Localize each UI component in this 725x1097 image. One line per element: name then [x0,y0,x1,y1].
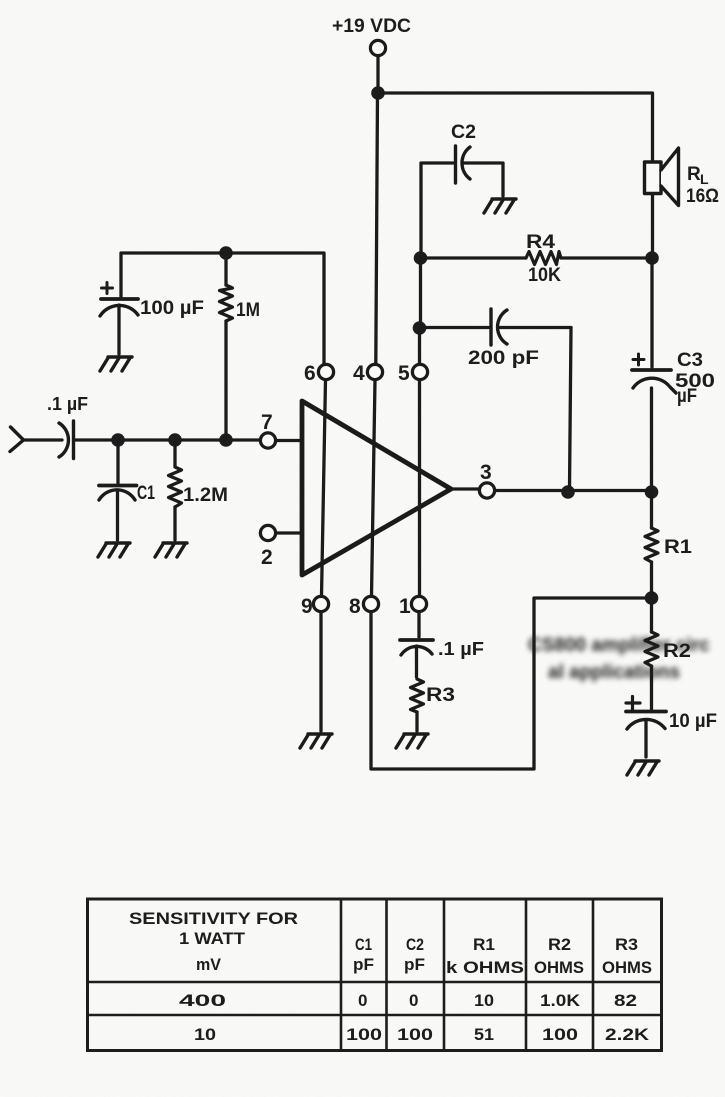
svg-text:C1: C1 [355,935,372,954]
label C3 500 uF [675,350,715,407]
wire pin 7 stub [226,438,302,442]
svg-text:R3: R3 [426,685,455,706]
label .1 uF input [47,394,88,414]
ground 100uF [100,357,132,371]
junction 1M node [219,433,233,447]
label pin 9 [301,595,313,618]
svg-text:+19 VDC: +19 VDC [332,16,411,37]
label R2 [663,641,691,662]
label pin 5 [398,362,410,385]
svg-text:51: 51 [474,1025,494,1044]
svg-text:OHMS: OHMS [602,958,652,977]
svg-text:1.2M: 1.2M [183,485,228,506]
ground C2 [484,199,516,213]
svg-text:k OHMS: k OHMS [446,958,524,977]
wire 200pF to output row [570,328,572,490]
svg-text:4: 4 [353,362,365,385]
pin 4 [367,364,382,379]
svg-text:9: 9 [301,595,313,618]
capacitor C2 [421,146,503,255]
wire bias top rail [121,253,324,364]
svg-text:400: 400 [179,991,226,1010]
junction feedback tap [561,485,575,499]
svg-text:C2: C2 [451,122,476,143]
junction C2 R4 node [414,251,428,265]
resistor 1.2M [169,440,182,540]
svg-text:R4: R4 [526,232,556,253]
label pin 8 [349,595,361,618]
pin 7 [260,433,275,448]
svg-text:10K: 10K [528,265,561,286]
wire pin 3 stub [451,487,479,490]
capacitor .1uF pin 1 [400,640,433,677]
label 1.2M [183,485,228,506]
input connector [10,427,24,452]
capacitor C3 500uF [632,354,676,393]
label .1 uF pin 1 [438,639,484,659]
svg-text:mV: mV [196,955,222,974]
label pin 3 [480,461,492,484]
label pin 1 [399,595,411,618]
capacitor C1 [99,440,137,540]
wire pin 8 feedback loop [371,598,645,769]
pin 1 [411,596,426,611]
pin 6 [318,364,333,379]
svg-text:C3: C3 [677,350,703,371]
svg-text:8: 8 [349,595,361,618]
resistor 1M [220,253,233,440]
speaker RL 16Ω [645,148,679,206]
pin 8 [363,596,378,611]
svg-text:2.2K: 2.2K [605,1025,650,1044]
svg-text:100: 100 [346,1025,382,1044]
rail pins 5-1 [418,380,421,596]
junction bias top node [219,246,233,260]
svg-text:5: 5 [398,362,410,385]
wire C3 to output node [650,388,653,489]
svg-text:10: 10 [194,1025,216,1044]
wire top rail [378,93,653,161]
junction supply node [371,86,385,100]
pin 3 [479,483,494,498]
junction C1 node [111,433,125,447]
ground R3 [396,734,428,748]
svg-text:3: 3 [480,461,492,484]
label R4 [526,232,556,253]
junction feedback node R1-R2 [645,591,659,605]
svg-text:.1 µF: .1 µF [47,394,88,414]
terminal +19 VDC [370,40,385,55]
table sensitivity for 1 watt [87,899,662,1051]
svg-text:L: L [700,171,709,187]
svg-text:100: 100 [397,1025,433,1044]
label pin 2 [261,546,273,569]
svg-text:7: 7 [261,411,273,434]
svg-text:al applications: al applications [548,662,680,683]
wire 200pF node to pin 5 [418,328,421,364]
svg-text:200 pF: 200 pF [468,348,539,369]
wire speaker to R4 node [651,194,654,256]
svg-text:C2: C2 [406,935,424,954]
svg-text:100: 100 [542,1025,578,1044]
svg-text:100 µF: 100 µF [140,298,204,319]
wire pin 1 down [417,612,420,637]
svg-text:0: 0 [409,991,418,1010]
wire C2 node down to 200pF node [419,258,422,325]
ground C1 [98,543,130,557]
label R1 [664,537,692,558]
svg-text:R1: R1 [664,537,692,558]
label R3 [426,685,455,706]
svg-text:1 WATT: 1 WATT [179,929,246,948]
svg-text:1.0K: 1.0K [540,991,581,1010]
svg-text:16Ω: 16Ω [686,186,719,207]
wire input row [74,438,226,441]
label 10 uF [669,711,717,732]
capacitor .1uF input [59,421,74,459]
wire pin 9 to ground [319,612,322,731]
pin 5 [412,364,427,379]
svg-text:C1: C1 [137,483,155,504]
svg-text:82: 82 [614,991,637,1010]
svg-text:0: 0 [358,991,367,1010]
svg-text:6: 6 [304,362,316,385]
label 1M [236,300,260,321]
capacitor 10uF [626,697,666,758]
capacitor 200pF [420,309,572,345]
svg-text:R1: R1 [473,935,495,954]
ground 10uF [627,761,659,775]
junction R4 right node [645,251,659,265]
svg-text:R3: R3 [615,935,638,954]
resistor R4 [421,252,653,265]
junction 200pF node [413,321,427,335]
svg-text:10: 10 [474,991,494,1010]
label 100 uF [140,298,204,319]
svg-text:SENSITIVITY FOR: SENSITIVITY FOR [129,909,298,928]
ground pin 9 [300,734,332,748]
label +19 VDC [332,16,411,37]
label 200 pF [468,348,539,369]
capacitor 100uF [100,283,138,355]
wire supply drop [376,56,379,88]
ghost print-through text [528,635,710,683]
resistor R2 [645,598,658,709]
junction output right node [645,485,659,499]
resistor R1 [645,492,658,594]
svg-text:pF: pF [404,955,425,974]
label pin 4 [353,362,365,385]
rail pins 4-8 [372,380,376,596]
label RL [686,164,719,207]
label pin 6 [304,362,316,385]
wire pin 2 stub [276,531,302,534]
op-amp U1 triangle [302,401,451,575]
label C2 [451,122,476,143]
rail +19 to pin 4 [376,93,378,364]
wire input to cap [24,438,63,441]
label pin 7 [261,411,273,434]
label 10K [528,265,561,286]
svg-text:1: 1 [399,595,411,618]
wire right rail down to C3 [650,258,653,367]
svg-text:2: 2 [261,546,273,569]
svg-text:µF: µF [677,386,697,407]
svg-text:pF: pF [353,955,374,974]
wire output row [495,489,648,492]
svg-text:R2: R2 [548,935,571,954]
svg-text:OHMS: OHMS [534,958,584,977]
svg-text:CS800 amplifier circ: CS800 amplifier circ [528,635,710,656]
svg-text:10 µF: 10 µF [669,711,717,732]
pin 9 [313,596,328,611]
svg-text:1M: 1M [236,300,260,321]
ground 1.2M [155,543,187,557]
svg-text:R: R [687,164,701,185]
label C1 [137,483,155,504]
pin 2 [260,525,275,540]
svg-text:.1 µF: .1 µF [438,639,484,659]
rail pins 6-9 through amp [322,380,326,596]
resistor R3 [411,679,424,731]
junction 1.2M node [168,433,182,447]
